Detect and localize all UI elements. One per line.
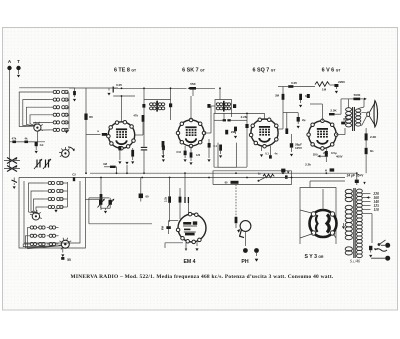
wire rounded corner into detector xyxy=(214,113,247,167)
6SK7 screen capacitor xyxy=(208,143,211,148)
phone terminals xyxy=(243,248,248,253)
oscillator coil group upper xyxy=(48,181,51,184)
mains cord squiggle xyxy=(375,249,387,252)
rectifier pin wires xyxy=(300,210,312,213)
wire IF1 box verticals xyxy=(143,114,145,147)
wavechange switch S1a xyxy=(34,124,41,131)
6SQ7 plate wire xyxy=(277,128,283,130)
svg-text:55K: 55K xyxy=(190,82,196,86)
beam tetrode 6V6 V5 xyxy=(309,121,337,149)
svg-text:4n: 4n xyxy=(274,152,277,156)
IF1 primary tuning capacitor xyxy=(142,104,145,108)
wire switch to sixth coil row xyxy=(38,129,50,131)
svg-text:FM: FM xyxy=(161,225,165,230)
svg-text:2.2k: 2.2k xyxy=(164,196,168,202)
input grid capacitor 6TE8 xyxy=(102,133,107,136)
voltage taps xyxy=(362,193,370,195)
power transformer primary xyxy=(345,189,352,193)
resistor field coil 8H xyxy=(365,148,368,154)
tone capacitor right xyxy=(285,175,288,178)
resistor 2M plate load xyxy=(282,94,285,100)
loudspeaker xyxy=(374,101,378,127)
resistor 2K xyxy=(285,128,288,134)
IF transformer MF1 xyxy=(144,100,171,114)
ground arrow oscillator upper xyxy=(54,210,57,213)
power wiring xyxy=(362,213,372,215)
svg-text:C2: C2 xyxy=(72,173,76,177)
EM4 capacitors xyxy=(184,197,186,203)
svg-text:Cd: Cd xyxy=(40,143,44,147)
junction C8 capacitor xyxy=(140,178,142,194)
tuning gang capacitor CV1 xyxy=(7,158,17,164)
capacitor C5 with ground at 6TE8 top xyxy=(108,88,110,90)
cathode resistor R5 xyxy=(131,150,134,157)
oscillator coil group lower xyxy=(30,226,33,229)
tone resistor zigzag xyxy=(263,174,274,177)
svg-text:8n: 8n xyxy=(370,149,374,153)
cathode capacitor C6 xyxy=(118,146,121,150)
svg-text:55: 55 xyxy=(67,258,71,262)
svg-text:4k: 4k xyxy=(24,137,28,141)
mains fuse 6H xyxy=(369,246,372,250)
wire IF1 to top bus xyxy=(143,88,145,99)
heater bus wire 1 xyxy=(90,172,356,174)
svg-text:2.2K: 2.2K xyxy=(370,135,377,139)
svg-text:0.1: 0.1 xyxy=(265,152,269,156)
bus drop wires xyxy=(116,167,118,173)
grid resistor zigzag 6V6 xyxy=(315,82,329,87)
phone jack PH xyxy=(240,221,251,232)
svg-text:120: 120 xyxy=(196,154,201,157)
svg-text:0.1: 0.1 xyxy=(213,144,217,148)
wire 6TE8 plate to IF1 xyxy=(135,134,143,136)
top bus wire xyxy=(113,87,186,89)
output transformer T2 xyxy=(346,108,352,112)
screen bypass right of 6TE8 xyxy=(162,146,165,151)
resistor R3 oscillator grid xyxy=(100,194,103,201)
IF2 primary capacitor xyxy=(207,104,210,108)
tone output capacitor xyxy=(281,169,285,173)
svg-text:T: T xyxy=(17,59,20,64)
trimmer capacitor CT2 xyxy=(109,200,112,205)
svg-text:5000: 5000 xyxy=(354,93,361,97)
6SK7 cathode resistor xyxy=(162,141,165,147)
resistor 2.2K field xyxy=(365,133,368,140)
AVC line capacitor xyxy=(245,124,248,128)
svg-text:EM 4: EM 4 xyxy=(183,259,195,265)
svg-text:0.05: 0.05 xyxy=(116,83,122,87)
mains plug terminals xyxy=(385,243,390,248)
ground 55 xyxy=(62,248,64,252)
svg-text:1M: 1M xyxy=(103,162,108,166)
svg-text:0.05: 0.05 xyxy=(291,81,297,85)
rectifier SY3 V6 xyxy=(310,210,337,237)
wire IF2 to top bus xyxy=(219,88,221,99)
oscillator switch S2b xyxy=(61,240,69,248)
svg-text:1M: 1M xyxy=(322,88,327,92)
resistor 1M xyxy=(299,94,302,100)
bus arrow xyxy=(126,165,128,173)
transformer ground arrow xyxy=(342,226,345,229)
svg-text:2M: 2M xyxy=(275,94,280,98)
svg-text:2.5K: 2.5K xyxy=(330,109,337,113)
decoupling capacitor 2uF xyxy=(283,112,298,114)
pentode 6SK7 V2 xyxy=(178,120,204,146)
svg-text:2.2k: 2.2k xyxy=(305,163,311,167)
oscillator padder capacitor xyxy=(73,177,75,181)
oscillator switch S2a xyxy=(32,213,39,220)
resistor 1M AVC xyxy=(110,166,116,168)
detector capacitor C10 xyxy=(225,130,228,135)
svg-text:400V: 400V xyxy=(336,155,343,159)
power transformer core xyxy=(353,188,355,258)
IF2 secondary capacitor xyxy=(233,104,236,108)
oscillator nest wires lower xyxy=(28,228,62,249)
wire 6SK7 plate to IF2 xyxy=(204,132,211,134)
svg-text:60: 60 xyxy=(146,195,150,199)
duodiode-triode 6SQ7 V3 xyxy=(251,119,278,146)
switch S2 contact with ground xyxy=(13,178,15,182)
wire 6TE8 grid top xyxy=(121,96,123,122)
padder capacitor Cp xyxy=(35,142,38,147)
svg-text:H: H xyxy=(325,169,327,173)
oscillator nest wires upper xyxy=(29,183,45,214)
arrow to bus 6V6 xyxy=(318,155,321,158)
mains switch xyxy=(378,243,381,246)
trimmer capacitor T1 xyxy=(36,160,38,168)
wire plate to output transformer xyxy=(336,134,345,136)
plate load resistor 47k xyxy=(142,115,145,122)
detector capacitor C11 xyxy=(234,127,237,132)
trimmer common ground xyxy=(100,205,102,208)
phone jack resistor 5k xyxy=(235,217,238,223)
oscillator section frame xyxy=(19,178,85,249)
coil bank right-side common wire xyxy=(67,92,70,93)
6SK7 cathode resistor 2 xyxy=(190,152,193,157)
series resistor above EM4 xyxy=(168,196,171,202)
6SK7 grid wire xyxy=(190,96,192,120)
tone capacitor SB xyxy=(231,181,239,184)
IF1 secondary tuning capacitor xyxy=(169,103,172,107)
tone switch arm xyxy=(258,180,260,182)
EM4 bottom-left wire xyxy=(165,242,183,244)
wire oscillator to mixer xyxy=(85,198,101,200)
svg-text:MINERVA RADIO – Mod. 522/1. Me: MINERVA RADIO – Mod. 522/1. Media freque… xyxy=(70,274,333,280)
coupling capacitor 2u xyxy=(307,94,310,98)
heater bus wire 2 xyxy=(19,177,345,179)
svg-text:S.ı./46: S.ı./46 xyxy=(350,259,360,264)
svg-text:2μ: 2μ xyxy=(302,118,306,122)
wire to 6TE8 input xyxy=(86,134,101,136)
svg-text:110: 110 xyxy=(374,208,379,212)
capacitor H bus xyxy=(330,168,335,171)
svg-text:PH: PH xyxy=(241,259,248,265)
triode-hexode 6TE8 V1 xyxy=(108,122,134,148)
svg-text:47k: 47k xyxy=(133,114,138,118)
IF2 output wires xyxy=(231,114,233,118)
6SQ7 cathode stub xyxy=(261,146,263,151)
antenna coil bank L1-L6 xyxy=(53,90,56,93)
svg-text:R6: R6 xyxy=(89,115,93,119)
electrolytic 28uF 125V xyxy=(290,143,293,147)
wire A to switch row xyxy=(10,141,46,143)
6SK7 bypass capacitor xyxy=(184,151,187,156)
screen feed resistor 55K xyxy=(188,87,191,89)
svg-text:125V: 125V xyxy=(295,146,302,150)
EM4 bottom pins wires xyxy=(185,241,187,248)
trimmer capacitor CT1 xyxy=(99,200,102,205)
svg-text:C10: C10 xyxy=(176,151,181,154)
resistor R4 AVC xyxy=(84,114,87,120)
IF transformer MF2 xyxy=(215,100,232,114)
6V6 grid wire xyxy=(321,104,323,121)
volume control box xyxy=(218,143,236,168)
trimmer capacitor T2 xyxy=(45,160,47,168)
oscillator switch S1b xyxy=(62,150,70,158)
svg-text:250: 250 xyxy=(313,153,318,157)
magic eye EM4 V4 xyxy=(178,214,206,242)
svg-text:24 μF 35×V: 24 μF 35×V xyxy=(347,174,365,178)
wavechange switch S1a wiring nest xyxy=(19,92,51,127)
power transformer secondary xyxy=(357,189,363,193)
IF trimmer loop frame xyxy=(89,197,110,199)
antenna series capacitor xyxy=(73,91,76,95)
AVC capacitor under IF1 xyxy=(141,146,147,148)
wire 55K down to 6SK7 xyxy=(192,90,194,96)
wire antenna to mixer grid xyxy=(85,88,87,173)
svg-text:25n: 25n xyxy=(323,151,328,155)
svg-text:47k: 47k xyxy=(12,137,17,141)
svg-text:2200: 2200 xyxy=(338,80,345,84)
tone control network box xyxy=(213,171,291,185)
rectifier frame xyxy=(300,188,336,245)
AF coupling resistor xyxy=(219,145,222,151)
EM4 grid resistor xyxy=(179,197,182,203)
